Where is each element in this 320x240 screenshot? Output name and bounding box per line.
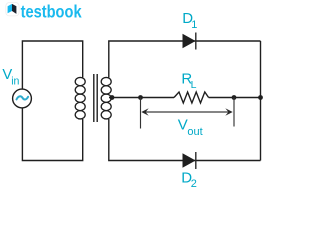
svg-text:L: L <box>191 79 197 91</box>
V_out right bar <box>233 98 235 127</box>
transformer core <box>94 74 97 122</box>
tilde inside source <box>17 96 29 99</box>
transformer primary coil <box>75 77 85 119</box>
V_out double arrow <box>141 108 232 115</box>
svg-text:2: 2 <box>191 178 197 190</box>
wire: resistor to right vertical <box>209 97 261 99</box>
transformer secondary coil <box>101 77 111 119</box>
node: output to right rail <box>258 95 263 100</box>
svg-text:1: 1 <box>191 19 197 31</box>
node: center tap junction <box>110 95 115 100</box>
diode D2 <box>183 152 196 169</box>
wire: bottom <box>109 119 261 161</box>
wire: right vertical <box>260 41 262 161</box>
testbook logo icon <box>6 3 19 16</box>
wire: left loop (top, left with source gap, bottom) <box>22 41 82 161</box>
wire: center tap to resistor <box>109 97 174 99</box>
V_out left bar <box>140 98 142 129</box>
svg-text:in: in <box>11 75 19 87</box>
AC source V_in <box>13 89 32 108</box>
svg-text:out: out <box>187 126 202 138</box>
node: V_out left junction <box>138 95 143 100</box>
diode D1 <box>183 33 196 50</box>
resistor R_L zigzag <box>174 92 209 103</box>
node: V_out right junction <box>232 95 237 100</box>
svg-text:testbook: testbook <box>21 2 82 22</box>
svg-text:V: V <box>178 117 188 134</box>
wire: secondary top to D1 and right side <box>109 41 261 78</box>
